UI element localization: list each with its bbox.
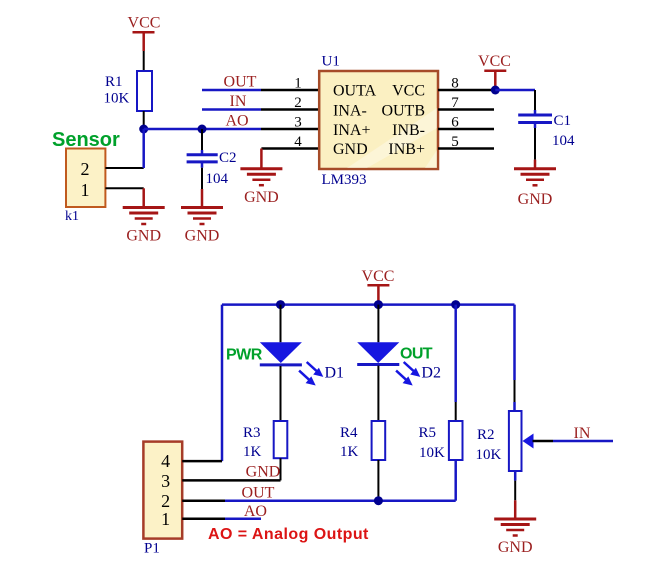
svg-text:INA-: INA-	[333, 103, 367, 120]
potentiometer R2	[509, 411, 522, 471]
ground GND4	[514, 169, 556, 208]
wire VCC node to C1	[495, 90, 535, 110]
svg-text:OUTB: OUTB	[381, 103, 425, 120]
svg-text:VCC: VCC	[362, 268, 395, 285]
node C2 junction	[198, 125, 207, 134]
wire VCC bus horizontal	[222, 303, 515, 306]
svg-text:R3: R3	[243, 425, 261, 441]
svg-text:GND: GND	[498, 539, 533, 556]
wire pin 7 stub	[438, 108, 494, 111]
svg-text:VCC: VCC	[478, 53, 511, 70]
svg-text:2: 2	[161, 491, 170, 511]
svg-text:GND: GND	[333, 141, 368, 158]
svg-text:VCC: VCC	[128, 15, 161, 32]
wire OUT net to pin 1	[202, 89, 319, 92]
svg-text:1K: 1K	[340, 444, 359, 460]
svg-text:4: 4	[161, 451, 170, 471]
label R2 10K	[476, 427, 502, 463]
svg-text:INB-: INB-	[392, 122, 425, 139]
svg-text:R1: R1	[105, 74, 123, 90]
wire R4 to OUT row	[377, 460, 379, 501]
node D1 junction	[276, 300, 285, 309]
label R3 1K	[243, 425, 262, 460]
op-amp U1 LM393	[319, 71, 438, 169]
svg-text:2: 2	[294, 95, 302, 111]
resistor R5	[449, 421, 463, 460]
wiper arrow of R2	[523, 434, 614, 449]
ground GND2	[181, 208, 223, 245]
wire R2 to ground	[514, 471, 517, 519]
wire P1 pin 1 AO stub	[182, 517, 261, 520]
svg-text:1: 1	[294, 76, 302, 92]
wire R3 to GND row	[280, 458, 282, 480]
svg-text:GND: GND	[185, 228, 220, 245]
svg-text:104: 104	[552, 133, 575, 149]
wire P1 pin 2 OUT row	[182, 499, 456, 502]
svg-text:OUTA: OUTA	[333, 83, 377, 100]
svg-text:U1: U1	[322, 54, 340, 70]
svg-text:P1: P1	[144, 541, 160, 557]
node pin8/VCC junction	[491, 86, 500, 95]
wire bus to R5	[454, 305, 457, 421]
svg-text:C1: C1	[554, 113, 572, 129]
svg-text:GND: GND	[246, 464, 281, 481]
wire bus to D2	[377, 305, 379, 343]
svg-text:D1: D1	[325, 365, 345, 382]
node R5 junction	[451, 300, 460, 309]
connector P1	[143, 442, 182, 539]
wire bus to D1	[280, 305, 282, 343]
node R4/OUT junction	[374, 496, 383, 505]
svg-text:R5: R5	[419, 425, 437, 441]
label R4 1K	[340, 425, 359, 460]
resistor R3	[274, 421, 288, 458]
svg-text:10K: 10K	[476, 447, 502, 463]
ground GND1	[123, 208, 165, 245]
wire bus right leg to R2	[513, 305, 516, 411]
svg-text:AO: AO	[244, 503, 267, 520]
svg-text:104: 104	[206, 171, 229, 187]
label C1 104	[552, 113, 575, 149]
svg-text:10K: 10K	[104, 91, 130, 107]
ground GND5	[494, 519, 536, 556]
label R1 10K	[104, 74, 130, 107]
svg-text:IN: IN	[230, 93, 247, 110]
wire pin 4 to ground	[260, 149, 263, 169]
power symbol VCC (bottom bus)	[362, 268, 395, 305]
svg-text:IN: IN	[574, 425, 591, 442]
svg-text:10K: 10K	[419, 445, 445, 461]
wire D2 to R4	[377, 366, 379, 421]
label C2 104	[206, 150, 237, 187]
resistor R4	[372, 421, 386, 460]
svg-text:PWR: PWR	[226, 347, 263, 364]
svg-text:AO: AO	[225, 113, 248, 130]
svg-text:GND: GND	[518, 191, 553, 208]
capacitor C2	[187, 129, 218, 208]
svg-text:GND: GND	[244, 189, 279, 206]
svg-text:LM393: LM393	[322, 172, 367, 188]
svg-text:D2: D2	[421, 364, 441, 381]
capacitor C1	[518, 110, 552, 169]
wire sensor pin2 to node A	[105, 129, 143, 168]
svg-text:1: 1	[161, 509, 170, 529]
resistor R1	[137, 71, 152, 111]
svg-text:OUT: OUT	[242, 485, 275, 502]
wire IN net to pin 2	[202, 108, 319, 111]
wire R1 to node A	[143, 111, 145, 129]
wire pin 6 stub	[438, 128, 494, 131]
wire sensor pin1 to ground	[105, 188, 143, 207]
svg-text:R4: R4	[340, 425, 358, 441]
svg-text:1: 1	[81, 180, 90, 200]
power symbol VCC (R1 branch)	[128, 15, 161, 52]
connector k1 Sensor	[66, 149, 105, 208]
wire P1 pin 3 GND row	[182, 479, 280, 482]
svg-text:R2: R2	[477, 427, 495, 443]
wire pin 4 stub	[261, 147, 319, 150]
svg-text:1K: 1K	[243, 444, 262, 460]
wire VCC to R1	[143, 51, 145, 71]
power symbol VCC (pin 8)	[478, 53, 511, 90]
ground GND3	[240, 169, 282, 206]
label R5 10K	[419, 425, 446, 461]
node A junction	[139, 125, 148, 134]
wire node A to IC pin 3 (AO net)	[144, 128, 319, 131]
wire bus left leg to P1 pin 4	[221, 305, 224, 462]
svg-text:INA+: INA+	[333, 122, 370, 139]
wire pin 8 stub	[438, 89, 495, 92]
svg-text:2: 2	[81, 159, 90, 179]
svg-text:VCC: VCC	[392, 83, 425, 100]
wire D1 to R3	[280, 366, 282, 421]
wire pin 5 stub	[438, 147, 494, 150]
svg-text:INB+: INB+	[388, 141, 425, 158]
wire R5 to OUT row	[454, 460, 457, 501]
svg-text:3: 3	[161, 471, 170, 491]
LED D1	[260, 342, 324, 385]
svg-text:OUT: OUT	[400, 346, 433, 363]
svg-text:AO = Analog Output: AO = Analog Output	[208, 526, 369, 543]
svg-text:C2: C2	[219, 150, 237, 166]
svg-text:OUT: OUT	[224, 74, 257, 91]
svg-text:GND: GND	[126, 228, 161, 245]
wire P1 pin 4 to bus	[182, 460, 222, 463]
svg-text:k1: k1	[65, 209, 79, 224]
LED D2	[357, 342, 420, 385]
node VCC/D2 junction	[374, 300, 383, 309]
svg-text:3: 3	[294, 115, 302, 131]
